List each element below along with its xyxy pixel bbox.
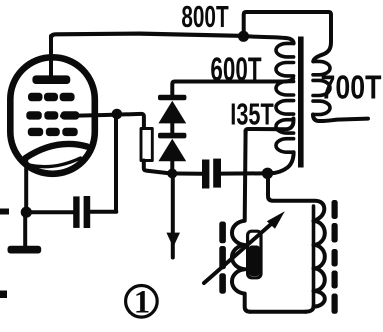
wire cathode lead xyxy=(24,157,28,210)
resistor R1 xyxy=(141,129,152,161)
capacitor C2 left wire xyxy=(176,172,202,176)
svg-text:600T: 600T xyxy=(210,51,262,89)
tube grid row 2 xyxy=(26,111,79,119)
svg-text:I35T: I35T xyxy=(230,97,274,132)
transformer core xyxy=(298,37,304,168)
diode D1 cathode bar xyxy=(158,95,186,101)
transformer primary winding 800T xyxy=(276,43,294,57)
tuning slug xyxy=(248,231,261,278)
capacitor C2 plates xyxy=(202,160,209,189)
wire primary entry xyxy=(249,36,294,43)
wire node A up and over to secondary top xyxy=(244,12,331,61)
node A xyxy=(238,31,249,42)
coil L2 right xyxy=(306,221,325,312)
arrow adjustment xyxy=(204,220,276,283)
coil L2 chord line xyxy=(312,206,316,306)
capacitor C1 left wire xyxy=(28,210,74,214)
wire diode bottom xyxy=(170,159,174,176)
tube grid row 3 xyxy=(28,128,78,136)
transformer secondary winding 700T xyxy=(313,61,330,74)
diode D2 cathode bar xyxy=(158,133,186,139)
capacitor C2 right wire xyxy=(221,171,262,175)
scan mark lower left edge xyxy=(0,291,7,299)
svg-text:1: 1 xyxy=(134,285,151,321)
tube plate bar xyxy=(32,75,70,84)
wire 600T tap xyxy=(172,79,293,96)
wire plate to node A xyxy=(51,34,240,38)
figure number 1 xyxy=(126,286,158,318)
node C grid junction xyxy=(112,109,123,120)
wire node C down to cap xyxy=(114,116,118,212)
arrowhead down xyxy=(166,233,180,248)
tube plate lead xyxy=(49,36,53,78)
svg-text:700T: 700T xyxy=(321,70,382,106)
wire arrow AVC output xyxy=(171,176,175,258)
diode D2 xyxy=(158,139,186,162)
wire to ground xyxy=(23,214,27,247)
node E oscillator junction xyxy=(262,168,273,179)
wire bottom link xyxy=(250,310,306,314)
svg-text:800T: 800T xyxy=(181,0,228,34)
wire grid lead xyxy=(62,114,144,129)
tube cathode xyxy=(26,144,88,158)
ferrite core dashes right xyxy=(332,200,338,314)
wire 135T tap xyxy=(246,119,294,134)
scan mark left edge xyxy=(0,209,9,215)
wire primary exit to node E xyxy=(270,152,294,173)
wire secondary exit xyxy=(313,115,368,122)
tube grid row 1 xyxy=(28,93,75,101)
ground xyxy=(8,246,42,254)
node B diode junction xyxy=(167,169,177,179)
wire resistor bottom xyxy=(144,161,170,174)
capacitor C1 right wire xyxy=(90,210,116,214)
node D cathode junction xyxy=(21,207,32,218)
wire diode link xyxy=(170,121,174,134)
ferrite core dashes left xyxy=(219,222,226,294)
capacitor C1 plates xyxy=(73,196,79,228)
coil L1 left with tap line xyxy=(232,131,250,312)
diode D1 xyxy=(158,101,186,124)
tube V1 envelope xyxy=(10,57,95,174)
wire node E down to right coil xyxy=(268,177,324,221)
